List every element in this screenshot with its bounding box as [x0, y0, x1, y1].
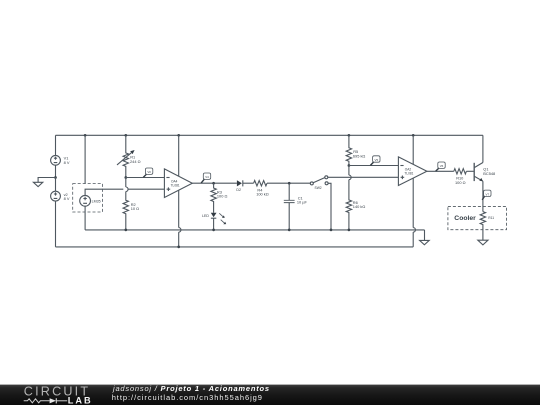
logo resistor zigzag and diode — [24, 398, 67, 403]
junction OA4 supply to rail2 — [177, 246, 180, 249]
load Cooler dashed box — [448, 206, 507, 229]
junction top rail / OA4 supply — [177, 134, 180, 137]
svg-text:LAB: LAB — [68, 395, 93, 405]
svg-text:V7: V7 — [486, 192, 490, 196]
wire top rail — [56, 134, 483, 136]
resistor R10 — [454, 169, 467, 185]
junction top rail / R1 — [124, 134, 127, 137]
wire LM35 bottom to ground rail — [84, 206, 86, 230]
junction C1 to ground rail — [288, 229, 291, 232]
svg-text:V4: V4 — [205, 175, 209, 179]
wire Q1 collector to top rail — [482, 135, 484, 162]
flag V7 — [482, 190, 491, 200]
ground symbol cooler — [478, 240, 488, 245]
wire D2 to R4 — [243, 182, 254, 184]
wire ground rail (rail1) — [85, 229, 424, 231]
wire negative supply rail (rail2) — [56, 246, 414, 248]
svg-text:10 Ω: 10 Ω — [131, 206, 139, 211]
diode D2 — [236, 180, 242, 192]
svg-text:http://circuitlab.com/cn3hh55a: http://circuitlab.com/cn3hh55ah6jg9 — [112, 393, 263, 402]
wire R10 to Q1 base — [466, 170, 473, 172]
switch SW2 — [310, 176, 328, 190]
svg-text:LED: LED — [202, 214, 209, 218]
junction R6 to ground rail — [348, 229, 351, 232]
sensor LM35 source — [80, 195, 101, 206]
wire hop OA2 supply over ground rail — [413, 228, 415, 233]
resistor R5 — [346, 135, 365, 165]
wire top rail to LM35 box — [84, 135, 86, 183]
op-amp OA4 TL081 — [164, 169, 192, 198]
wire OA4 positive supply — [178, 135, 180, 227]
wire hop R6 over SW2 wire — [349, 175, 351, 180]
ground symbol mid — [420, 240, 430, 244]
junction R5/R6 node — [348, 164, 351, 167]
capacitor C1 — [284, 183, 308, 230]
voltage source v2 — [51, 191, 70, 201]
sensor LM35 dashed box — [73, 184, 103, 212]
wire v2 bottom to negative rail — [55, 201, 57, 247]
wire LM35 output to op-amp plus — [85, 189, 164, 195]
wire ground rail to ground symbol — [424, 230, 426, 241]
resistor R6 — [346, 166, 365, 230]
svg-text:695 kΩ: 695 kΩ — [353, 153, 366, 158]
resistor R1 (variable) — [117, 135, 141, 177]
wire node to ground — [38, 178, 55, 183]
junction R4 wire / C1 — [288, 182, 291, 185]
wire R1/R2 node to OA4 minus input — [126, 177, 165, 179]
voltage source V1 — [51, 155, 70, 165]
wire LED to ground rail — [213, 218, 215, 230]
svg-text:SW2: SW2 — [315, 186, 322, 190]
wire SW2 lower contact to ground rail — [328, 183, 331, 230]
ground symbol left — [33, 182, 42, 186]
svg-text:BC548: BC548 — [483, 171, 495, 176]
svg-text:D2: D2 — [236, 188, 241, 192]
svg-text:V6: V6 — [440, 164, 444, 168]
wire OA4 output — [192, 182, 237, 184]
diode LED — [202, 213, 226, 225]
op-amp OA2 TL081 — [398, 157, 427, 186]
svg-text:Cooler: Cooler — [454, 215, 476, 222]
svg-text:244 Ω: 244 Ω — [130, 159, 141, 164]
wire SW2 upper contact to OA2 plus input — [328, 176, 399, 178]
svg-text:100 kΩ: 100 kΩ — [256, 192, 269, 197]
resistor R4 — [254, 181, 269, 197]
svg-text:8 V: 8 V — [64, 196, 70, 201]
wire hop R2 over LM35 output — [126, 187, 128, 192]
junction top rail / R5 — [348, 134, 351, 137]
svg-text:jadsonsoj / Projeto 1 - Aciona: jadsonsoj / Projeto 1 - Acionamentos — [112, 384, 270, 393]
svg-text:100 Ω: 100 Ω — [217, 194, 228, 199]
wire R5/R6 node to OA2 minus input — [349, 165, 399, 167]
wire node to v2 top — [55, 178, 57, 192]
wire hop OA4 supply over ground rail — [179, 228, 181, 233]
wire V1 to top rail — [55, 135, 57, 155]
wire OA2 positive supply — [412, 135, 414, 227]
junction R2 to ground rail — [124, 229, 127, 232]
wire Q1 emitter down — [482, 181, 484, 211]
junction top rail / LM35 — [84, 134, 87, 137]
wire OA2 output — [427, 170, 454, 172]
flag V5 — [370, 156, 380, 166]
wire R4 to switch — [267, 182, 310, 184]
junction OA4 output / R3 — [212, 182, 215, 185]
svg-text:140 kΩ: 140 kΩ — [353, 204, 366, 209]
svg-text:TL081: TL081 — [171, 183, 180, 187]
junction LED to ground rail — [212, 229, 215, 232]
wire OA4 negative supply to rail2 — [178, 232, 180, 247]
svg-text:8 V: 8 V — [64, 160, 70, 165]
junction R1/R2 node to op-amp minus — [124, 176, 127, 179]
resistor R3 — [211, 183, 228, 213]
node junction V1/v2 — [54, 176, 57, 179]
transistor Q1 BC548 — [474, 163, 495, 182]
flag V0 — [143, 168, 152, 177]
svg-text:TL081: TL081 — [404, 171, 413, 175]
svg-text:V0: V0 — [147, 170, 151, 174]
resistor R2 — [123, 178, 139, 230]
svg-text:LM35: LM35 — [92, 200, 101, 204]
wire OA2 negative supply to rail2 — [412, 232, 414, 247]
junction top rail / OA2 supply — [412, 134, 415, 137]
svg-text:10 µF: 10 µF — [297, 200, 308, 205]
flag V4 — [201, 173, 211, 183]
wire V1 bottom to node — [55, 165, 57, 177]
svg-text:R11: R11 — [488, 216, 494, 220]
flag V6 — [436, 162, 446, 171]
svg-text:V5: V5 — [375, 158, 379, 162]
resistor R11 — [480, 212, 494, 241]
svg-text:100 Ω: 100 Ω — [455, 180, 466, 185]
junction SW2 lower to ground rail — [330, 229, 333, 232]
